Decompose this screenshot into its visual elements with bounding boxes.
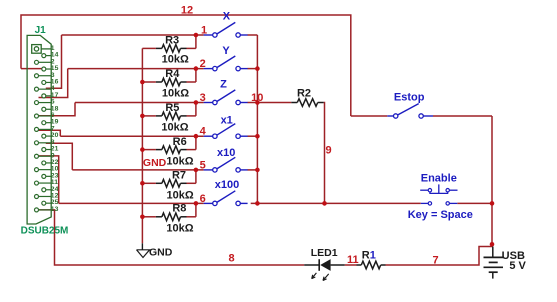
svg-text:x100: x100 xyxy=(215,179,239,191)
svg-text:12: 12 xyxy=(181,4,193,16)
svg-text:10kΩ: 10kΩ xyxy=(166,156,193,168)
svg-text:10: 10 xyxy=(251,92,263,104)
svg-text:R7: R7 xyxy=(172,170,186,182)
svg-text:Y: Y xyxy=(222,45,230,57)
svg-text:X: X xyxy=(223,10,231,22)
svg-text:GND: GND xyxy=(149,246,173,258)
svg-text:LED1: LED1 xyxy=(311,247,338,259)
svg-text:1: 1 xyxy=(201,25,207,37)
svg-text:10kΩ: 10kΩ xyxy=(166,223,193,235)
svg-text:10kΩ: 10kΩ xyxy=(162,87,189,99)
svg-text:5: 5 xyxy=(200,159,206,171)
svg-text:Key = Space: Key = Space xyxy=(408,209,473,221)
svg-text:11: 11 xyxy=(347,254,359,266)
svg-text:GND: GND xyxy=(143,157,167,169)
svg-text:13: 13 xyxy=(51,206,59,213)
svg-text:6: 6 xyxy=(200,193,206,205)
svg-text:5 V: 5 V xyxy=(509,260,526,272)
svg-text:Enable: Enable xyxy=(421,172,457,184)
svg-text:R8: R8 xyxy=(172,202,186,214)
svg-text:10kΩ: 10kΩ xyxy=(167,189,194,201)
svg-text:Estop: Estop xyxy=(394,91,425,103)
svg-text:10kΩ: 10kΩ xyxy=(162,54,189,66)
svg-text:x10: x10 xyxy=(217,147,235,159)
svg-text:10kΩ: 10kΩ xyxy=(161,122,188,134)
svg-text:Z: Z xyxy=(220,79,227,91)
svg-text:R5: R5 xyxy=(165,102,179,114)
svg-text:R2: R2 xyxy=(297,88,311,100)
svg-text:3: 3 xyxy=(200,92,206,104)
svg-text:4: 4 xyxy=(200,126,207,138)
svg-text:9: 9 xyxy=(326,144,332,156)
svg-text:7: 7 xyxy=(433,254,439,266)
svg-text:R3: R3 xyxy=(165,34,179,46)
svg-text:8: 8 xyxy=(228,253,234,265)
svg-text:J1: J1 xyxy=(35,25,47,36)
svg-text:R1: R1 xyxy=(362,249,376,261)
svg-text:DSUB25M: DSUB25M xyxy=(21,225,69,236)
svg-text:2: 2 xyxy=(200,58,206,70)
svg-text:R6: R6 xyxy=(173,136,187,148)
svg-text:x1: x1 xyxy=(221,114,233,126)
svg-text:R4: R4 xyxy=(165,68,180,80)
